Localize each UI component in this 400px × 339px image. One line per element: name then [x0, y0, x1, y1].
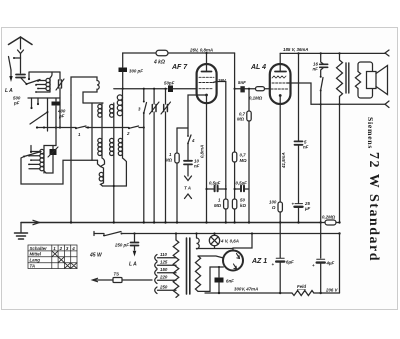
table X lang: [58, 257, 64, 263]
resistor 50kOhm: [232, 199, 236, 209]
wave band coil lower-left: [43, 148, 45, 173]
AL4 cathode: [279, 94, 282, 97]
svg-text:0,7: 0,7: [240, 153, 247, 158]
resistor 0,1MOhm: [256, 87, 265, 91]
wire coil return: [103, 185, 127, 187]
svg-text:AZ 1: AZ 1: [251, 258, 267, 265]
heater winding: [197, 234, 200, 249]
wire top link: [29, 72, 60, 78]
antenna symbol: [9, 37, 33, 45]
IF coil top left: [101, 103, 103, 128]
switch blade antenna tap: [27, 80, 41, 85]
svg-text:41,5mA: 41,5mA: [281, 152, 286, 169]
node 320 top: [320, 52, 322, 54]
secondary zigzag: [355, 72, 360, 89]
capacitor 250pF: [134, 234, 136, 243]
wire HV to AZ1 anode 1: [198, 256, 224, 258]
ground symbol: [15, 233, 28, 239]
switch blade band: [30, 112, 48, 124]
svg-text:300V, 47mA: 300V, 47mA: [234, 287, 258, 292]
selector plug 220: [155, 277, 157, 284]
switch table: [28, 245, 77, 269]
wire bus to ground: [20, 223, 22, 233]
speaker cone: [376, 66, 388, 95]
wire switch line mid: [37, 127, 76, 129]
wire AL4 cathode rail: [279, 104, 281, 202]
AF7 cathode: [205, 94, 208, 97]
node anode junction: [234, 88, 236, 90]
svg-text:250 pF: 250 pF: [114, 243, 129, 248]
svg-text:MΩ: MΩ: [214, 203, 222, 208]
tube AF7: [197, 64, 217, 103]
capacitor 400pF (solid): [55, 98, 57, 146]
wire pole to cap: [20, 58, 22, 73]
svg-text:nF: nF: [303, 145, 309, 150]
selector plug 110: [155, 255, 157, 262]
svg-text:T A: T A: [184, 186, 191, 191]
small coupling coil: [101, 167, 104, 187]
svg-text:µF: µF: [304, 206, 311, 211]
node return 320: [320, 103, 322, 105]
wire rail 320 upper: [321, 53, 324, 64]
table X TA cols: [64, 263, 77, 269]
TA terminal lower: [185, 194, 192, 199]
svg-text:4 kΩ: 4 kΩ: [153, 60, 165, 66]
wire 300pF rail top corner: [122, 53, 124, 67]
svg-text:nF: nF: [194, 164, 200, 169]
switch 1: [76, 126, 86, 128]
selector plug 250: [155, 287, 157, 294]
wire AF7 screen right: [217, 82, 226, 187]
svg-text:0,8mA: 0,8mA: [200, 145, 205, 158]
svg-text:72 W Standard: 72 W Standard: [366, 152, 381, 262]
loop antenna winding: [71, 77, 97, 95]
wire grid tap from AL4: [291, 83, 312, 104]
capacitor 0,5uF left: [207, 188, 215, 190]
coil taps lower: [29, 152, 40, 169]
svg-text:L A: L A: [5, 88, 13, 94]
capacitor 500pF: [16, 75, 25, 78]
capacitor 10nF: [184, 161, 192, 165]
TA terminal upper: [185, 176, 192, 181]
bus arrow: [33, 220, 40, 224]
speaker magnet box: [367, 72, 377, 89]
resistor 100 Ohm: [278, 202, 282, 212]
coil bottom mid: [113, 128, 115, 223]
svg-text:0,2MΩ: 0,2MΩ: [322, 215, 336, 220]
heater line right part: [122, 233, 340, 235]
node contact: [25, 83, 27, 85]
output connector bottom: [385, 101, 389, 108]
capacitor 300pF (solid): [119, 68, 128, 73]
svg-text:Lang: Lang: [30, 258, 41, 263]
chassis bus: [21, 222, 321, 224]
capacitor 25uF electrolytic: [295, 203, 303, 205]
wire coupling: [235, 88, 241, 90]
resistor 0,2MOhm: [325, 220, 336, 225]
svg-text:4: 4: [191, 138, 195, 143]
wire anode corner down: [234, 53, 236, 89]
switch 4: [188, 135, 191, 143]
resistor 0,7MOhm upper: [247, 111, 251, 121]
wire rail 339 bottom: [339, 234, 341, 294]
resistor 1MOhm (grid AL4): [224, 199, 228, 209]
svg-text:45 W: 45 W: [89, 253, 103, 259]
svg-text:185 V, 36mA: 185 V, 36mA: [283, 47, 308, 52]
node return 339: [338, 103, 340, 105]
wire supply top left: [123, 52, 156, 54]
resistor 1MOhm (TA): [175, 153, 179, 163]
mains lead: [93, 279, 152, 281]
table X mittel: [52, 251, 58, 257]
wire trimmer rail: [59, 72, 61, 128]
svg-text:4: 4: [71, 246, 75, 251]
bus junction nodes: [70, 221, 72, 223]
selector plug 150: [155, 270, 157, 277]
stub contact a: [31, 98, 33, 107]
resistor 0,7MOhm lower: [232, 152, 236, 162]
svg-text:Ω: Ω: [271, 205, 276, 210]
wire rail 298: [298, 53, 300, 141]
svg-text:26V, 0,8mA: 26V, 0,8mA: [189, 48, 213, 53]
coil taps: [36, 81, 50, 93]
svg-text:TA: TA: [30, 264, 36, 269]
svg-text:+: +: [292, 202, 295, 207]
wire rail 234.6 down: [234, 89, 236, 152]
wire 185V supply: [280, 52, 385, 54]
transformer core: [346, 63, 349, 93]
AZ1 cathode top lead (B+): [233, 234, 252, 251]
grid wire band filter: [114, 88, 167, 90]
wire rail 280 lower: [279, 223, 281, 259]
wire corner TA: [177, 127, 188, 129]
transformer primary winding: [173, 240, 179, 297]
coil bottom left: [101, 128, 105, 167]
svg-text:Feld: Feld: [297, 284, 306, 289]
svg-text:L A: L A: [129, 262, 137, 268]
svg-text:pF: pF: [58, 114, 65, 119]
svg-text:300 pF: 300 pF: [129, 69, 143, 74]
svg-text:+: +: [312, 263, 315, 268]
switch 2: [129, 126, 139, 128]
switch tone: [321, 78, 323, 91]
trimmer capacitor lower (solid): [50, 149, 57, 155]
AL4 grid 1 dashes: [271, 88, 288, 90]
wire AF7 cathode rail to bus: [206, 103, 208, 223]
capacitor 50pF series: [168, 86, 173, 93]
svg-text:AF 7: AF 7: [171, 64, 188, 71]
wire rail 1MOhm: [176, 128, 178, 153]
AF7 anode bar: [202, 71, 212, 73]
wire primary top: [175, 234, 177, 241]
fuse TS: [113, 278, 122, 283]
svg-text:2: 2: [126, 131, 130, 136]
AF7 grid dashes: [199, 76, 214, 78]
svg-text:Mittel: Mittel: [30, 252, 42, 257]
switch blade LA: [9, 57, 12, 71]
svg-text:Schalter: Schalter: [30, 246, 48, 251]
AL4 grid 3 zigzag: [272, 76, 286, 78]
svg-text:150: 150: [160, 267, 168, 272]
wire pole to switch node: [14, 57, 21, 59]
capacitor 4uF electrolytic: [317, 258, 325, 260]
wire 6nF tap: [218, 267, 220, 277]
svg-text:100: 100: [269, 200, 277, 205]
svg-text:6µF: 6µF: [286, 260, 294, 265]
wire antenna down-lead: [20, 37, 22, 49]
coil bottom link: [44, 171, 46, 173]
pilot lamp: [209, 235, 219, 245]
AZ1 electrodes: [237, 254, 240, 259]
svg-text:6nF: 6nF: [226, 279, 234, 284]
switch blade band lower: [24, 152, 41, 157]
svg-text:2: 2: [59, 246, 63, 251]
trimmer capacitor C-osc2: [165, 89, 167, 223]
resistor 4kOhm: [156, 50, 168, 56]
wire HV to AZ1 anode 2: [198, 267, 223, 291]
IF coil top mid: [113, 103, 115, 128]
oscillator coil: [122, 89, 124, 128]
svg-text:0,5µF: 0,5µF: [209, 181, 221, 186]
node 339 top: [338, 52, 340, 54]
arrow LA lower: [134, 246, 136, 251]
trimmer capacitor antenna: [59, 80, 62, 88]
AL4 anode bar: [275, 71, 286, 73]
wire rail 249: [248, 89, 250, 111]
wire rail 320 down: [320, 104, 322, 222]
svg-text:MΩ: MΩ: [240, 158, 248, 163]
wire rail 92: [91, 103, 93, 160]
secondary + voice coil loop: [358, 62, 373, 73]
field coil Feld: [292, 291, 314, 296]
switch 3 blade: [144, 103, 147, 114]
node 298 top: [297, 52, 299, 54]
svg-text:AL 4: AL 4: [250, 64, 266, 71]
wire AF7 aux left: [188, 95, 199, 136]
svg-text:5nF: 5nF: [238, 80, 246, 85]
svg-text:50: 50: [240, 198, 245, 203]
antenna coil L1: [50, 72, 52, 92]
wire rail 339 down: [339, 104, 341, 222]
wire link lower: [98, 160, 101, 166]
capacitor 6nF (solid): [215, 278, 224, 283]
svg-text:250: 250: [159, 285, 168, 290]
wire lower link: [28, 97, 60, 99]
lamp top lead: [214, 234, 216, 236]
wire rail 320 bottom: [320, 223, 322, 259]
svg-text:nF: nF: [313, 67, 319, 72]
svg-text:4 V, 0,6A: 4 V, 0,6A: [220, 239, 239, 244]
svg-text:Siemens: Siemens: [366, 117, 375, 149]
selector plug 125: [155, 262, 157, 269]
tube AL4: [270, 64, 291, 104]
node antenna switch pivot: [13, 57, 15, 59]
mains arrow: [93, 278, 98, 281]
svg-text:4µF: 4µF: [326, 261, 335, 266]
capacitor 5nF coupling: [240, 86, 244, 92]
AL4 grid 2 dashes: [272, 82, 287, 84]
transformer core bars: [187, 238, 190, 294]
output transformer primary: [337, 53, 343, 104]
svg-text:MΩ: MΩ: [165, 158, 173, 163]
capacitor 6uF electrolytic: [276, 257, 284, 259]
coil bottom right: [123, 128, 127, 187]
wire rail 71 to bus: [70, 95, 72, 223]
wire rail 225.8 lower: [225, 186, 227, 199]
svg-text:110: 110: [160, 252, 168, 257]
bottom HT line: [205, 292, 292, 294]
svg-text:26V: 26V: [217, 78, 227, 83]
capacitor 0,5uF right: [235, 188, 241, 190]
svg-text:pF: pF: [13, 101, 20, 106]
stub contact b: [37, 98, 39, 103]
heater line: [94, 233, 104, 235]
svg-text:kΩ: kΩ: [240, 203, 246, 208]
svg-text:+: +: [272, 262, 275, 267]
svg-text:206 V: 206 V: [325, 288, 339, 293]
svg-text:TS: TS: [114, 272, 120, 277]
antenna plug connector: [18, 50, 24, 58]
wire heater to lamp: [197, 246, 234, 249]
svg-text:0,5µF: 0,5µF: [236, 181, 248, 186]
trimmer capacitor C-osc1: [153, 89, 155, 223]
wire rail 47: [47, 98, 49, 131]
wire speaker return: [311, 103, 386, 105]
HV secondary winding: [195, 256, 200, 291]
arrow to LA terminal: [10, 70, 12, 76]
svg-text:125: 125: [160, 260, 168, 265]
coil top hook: [44, 146, 56, 149]
capacitor 5nF tone: [295, 141, 303, 144]
capacitor 16nF: [320, 64, 328, 67]
svg-text:MΩ: MΩ: [237, 117, 245, 122]
svg-text:50pF: 50pF: [164, 81, 175, 86]
svg-text:220: 220: [159, 275, 168, 280]
rectifier tube AZ1: [223, 251, 243, 271]
wire cap to switch contact: [21, 78, 27, 85]
mains switch: [104, 232, 121, 236]
wire loop bottom: [83, 102, 103, 104]
wire rail switch 3: [143, 89, 145, 223]
output connector top: [385, 50, 389, 56]
svg-text:0,1MΩ: 0,1MΩ: [249, 96, 263, 101]
wire return U loop: [21, 157, 98, 185]
